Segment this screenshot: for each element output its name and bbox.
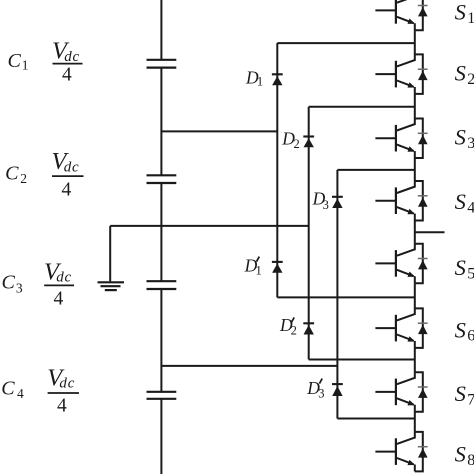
label S6 bbox=[455, 317, 474, 344]
label D1 bbox=[245, 67, 263, 88]
wire: neutral node (C2-C3 junction) from ground tap to clamp chain D2/D2' bbox=[110, 225, 309, 227]
IGBT switch S3 with antiparallel diode bbox=[375, 119, 427, 159]
svg-text:S: S bbox=[455, 61, 466, 86]
capacitor C3 bbox=[147, 281, 177, 289]
wire: DC bus between C1 and C2 bbox=[160, 68, 162, 176]
label D1' bbox=[244, 255, 262, 277]
svg-text:4: 4 bbox=[54, 288, 64, 309]
label S7 bbox=[455, 381, 474, 408]
capacitor C2 bbox=[147, 175, 177, 183]
svg-text:dc: dc bbox=[64, 49, 80, 65]
wire: clamp chain 3 vertical (D3/D3') bbox=[336, 170, 338, 419]
label S3 bbox=[455, 125, 474, 152]
label S1 bbox=[455, 0, 474, 27]
IGBT switch S7 with antiparallel diode bbox=[375, 372, 427, 412]
svg-text:3: 3 bbox=[318, 386, 324, 400]
svg-text:3: 3 bbox=[323, 198, 329, 212]
wire: main line S2 emitter to S3 collector bbox=[414, 94, 416, 119]
IGBT switch S4 with antiparallel diode bbox=[375, 181, 427, 221]
wire: AC output terminal at S4/S5 junction bbox=[415, 231, 445, 233]
ground symbol bbox=[98, 282, 125, 290]
label S5 bbox=[455, 255, 474, 282]
diode D3 (clamp) bbox=[332, 197, 343, 208]
svg-text:dc: dc bbox=[56, 270, 72, 286]
wire: clamp connection D3 to S3/S4 junction bbox=[337, 169, 414, 171]
label D3 bbox=[312, 189, 329, 212]
IGBT switch S6 with antiparallel diode bbox=[375, 308, 427, 348]
diode D1 (clamp) bbox=[272, 74, 283, 85]
diode D2' (clamp) bbox=[303, 323, 314, 334]
IGBT switch S5 with antiparallel diode bbox=[375, 244, 427, 283]
wire: clamp connection D3' to S7/S8 junction bbox=[337, 418, 414, 420]
value label Vdc/4 for C2 bbox=[52, 148, 84, 200]
wire: main line S4 emitter to S5 collector bbox=[414, 221, 416, 244]
label S4 bbox=[455, 189, 474, 216]
svg-text:S: S bbox=[455, 317, 466, 342]
svg-text:5: 5 bbox=[467, 266, 474, 283]
svg-text:7: 7 bbox=[467, 392, 474, 409]
svg-text:4: 4 bbox=[62, 65, 72, 86]
wire: clamp connection D1 to S1/S2 junction bbox=[277, 42, 415, 44]
capacitor C4 bbox=[147, 392, 177, 399]
svg-text:3: 3 bbox=[16, 280, 23, 295]
svg-text:2: 2 bbox=[20, 171, 27, 186]
wire: main line S5 emitter to S6 collector bbox=[414, 283, 416, 308]
label S2 bbox=[455, 61, 474, 88]
wire: DC bus between C3 and C4 bbox=[160, 289, 162, 392]
wire: DC bus bottom segment bbox=[160, 399, 162, 474]
label D2' bbox=[279, 315, 297, 338]
svg-text:S: S bbox=[455, 0, 466, 25]
IGBT switch S1 with antiparallel diode bbox=[375, 0, 427, 30]
svg-text:4: 4 bbox=[467, 199, 474, 216]
svg-text:6: 6 bbox=[467, 328, 474, 345]
wire: clamp chain 2 vertical (D2/D2') bbox=[308, 107, 310, 360]
svg-text:C: C bbox=[2, 272, 16, 294]
wire: clamp connection D1' to S5/S6 junction bbox=[277, 296, 415, 298]
wire: node V3 (C3-C4 junction) to clamp chain D3/D3' bbox=[161, 365, 337, 367]
diode D1' (clamp) bbox=[272, 262, 283, 273]
label C2 bbox=[5, 162, 27, 186]
svg-text:S: S bbox=[455, 442, 466, 467]
svg-text:3: 3 bbox=[467, 135, 474, 152]
wire: main line S7 emitter to S8 collector bbox=[414, 412, 416, 432]
label D3' bbox=[306, 378, 324, 401]
svg-text:dc: dc bbox=[59, 376, 75, 392]
wire: clamp connection D2 to S2/S3 junction bbox=[309, 106, 415, 108]
svg-text:8: 8 bbox=[467, 452, 474, 469]
diode D2 (clamp) bbox=[303, 137, 314, 148]
svg-text:1: 1 bbox=[22, 57, 29, 72]
wire: node V1 (C1-C2 junction) to clamp chain D1/D1' bbox=[161, 130, 277, 132]
svg-text:4: 4 bbox=[57, 396, 67, 417]
value label Vdc/4 for C3 bbox=[44, 258, 74, 309]
svg-text:S: S bbox=[455, 255, 466, 280]
wire: clamp chain 1 vertical (D1/D1') bbox=[276, 43, 278, 297]
IGBT switch S8 with antiparallel diode bbox=[375, 432, 427, 472]
wire: DC bus between C2 and C3 bbox=[160, 183, 162, 281]
label C3 bbox=[2, 272, 23, 296]
wire: clamp connection D2' to S6/S7 junction bbox=[309, 359, 415, 361]
label C4 bbox=[1, 378, 24, 401]
svg-text:2: 2 bbox=[294, 137, 300, 151]
svg-text:dc: dc bbox=[64, 160, 80, 176]
IGBT switch S2 with antiparallel diode bbox=[375, 54, 427, 93]
wire: main line S6 emitter to S7 collector bbox=[414, 348, 416, 372]
svg-text:C: C bbox=[1, 378, 15, 400]
svg-text:1: 1 bbox=[256, 264, 262, 278]
svg-text:C: C bbox=[8, 50, 22, 72]
wire: main line S1 emitter to S2 collector bbox=[414, 30, 416, 54]
wire: main line S3 emitter to S4 collector bbox=[414, 158, 416, 181]
svg-text:S: S bbox=[455, 125, 466, 150]
svg-text:2: 2 bbox=[467, 71, 474, 88]
svg-text:4: 4 bbox=[62, 180, 72, 201]
svg-text:S: S bbox=[455, 189, 466, 214]
svg-text:1: 1 bbox=[257, 75, 263, 89]
capacitor C1 bbox=[147, 60, 177, 68]
svg-text:1: 1 bbox=[467, 10, 474, 27]
wire: ground stub bbox=[109, 226, 111, 282]
value label Vdc/4 for C1 bbox=[52, 38, 83, 86]
svg-text:C: C bbox=[5, 162, 19, 184]
label S8 bbox=[455, 442, 474, 469]
svg-text:2: 2 bbox=[291, 324, 297, 338]
wire: DC bus top segment bbox=[160, 0, 162, 60]
value label Vdc/4 for C4 bbox=[47, 364, 79, 416]
diode D3' (clamp) bbox=[332, 384, 343, 396]
label D2 bbox=[281, 128, 299, 150]
svg-text:4: 4 bbox=[17, 386, 24, 401]
svg-text:S: S bbox=[455, 381, 466, 406]
label C1 bbox=[8, 50, 29, 73]
